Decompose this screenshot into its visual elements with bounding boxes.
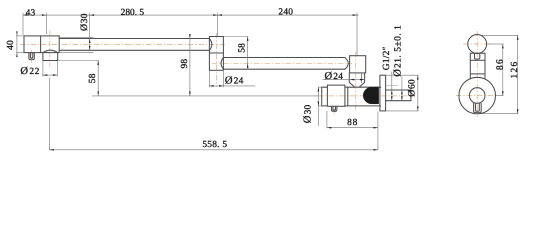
ext line dome bottom (58 top ref) bbox=[57, 60, 99, 62]
front view column joint line bbox=[470, 73, 485, 75]
svg-text:Ø60: Ø60 bbox=[407, 79, 418, 97]
arrow dia30 top bbox=[89, 39, 91, 43]
arrow 58no2 bottom bbox=[247, 63, 249, 67]
dia60 ext bottom bbox=[385, 110, 418, 112]
arrow 558.5 right bbox=[374, 149, 378, 151]
centerline drain nub axis bbox=[333, 108, 335, 116]
arrow 126 bottom bbox=[517, 109, 519, 113]
top dim line (43 / 280.5 / 240) bbox=[23, 14, 359, 16]
arm1 sleeve top edge bbox=[59, 37, 93, 39]
40 ext bottom bbox=[16, 52, 23, 54]
elbow1 mid joint line bbox=[209, 52, 223, 54]
40 dim line (left side) bbox=[16, 31, 23, 58]
arm1 sleeve bottom edge bbox=[59, 52, 93, 54]
88 ext left bbox=[326, 111, 328, 128]
riser neck right bbox=[359, 85, 361, 88]
86 dim line bbox=[502, 44, 504, 96]
svg-text:Ø30: Ø30 bbox=[79, 13, 90, 31]
arrow 40 bottom bbox=[16, 53, 18, 57]
dia60 dim line bbox=[417, 75, 419, 111]
arm1 tube top edge bbox=[59, 38, 209, 40]
arrow 98 bottom bbox=[189, 92, 191, 96]
dia30 no2 dim line bbox=[317, 87, 319, 126]
dia24 no1 ext right bbox=[222, 70, 224, 87]
arrow 86 top bbox=[502, 44, 504, 48]
riser chamfer right bbox=[360, 82, 365, 86]
arrow dia60 top bbox=[417, 75, 419, 79]
arrow dia24no2 right bbox=[360, 79, 364, 81]
arm1 tube bottom edge bbox=[59, 49, 209, 51]
ext line wall pivot bbox=[356, 13, 358, 56]
dia22 dim line bbox=[43, 74, 57, 76]
arrow dia60 bottom bbox=[417, 107, 419, 111]
riser column inner line bbox=[361, 73, 363, 83]
front view pipe circle bbox=[469, 88, 485, 104]
centerline front view top circle axis bbox=[463, 43, 492, 45]
centerline wall pivot axis bbox=[355, 52, 357, 112]
inlet thread bottom edge bbox=[385, 100, 411, 102]
arm1 end cap arc bbox=[209, 39, 211, 51]
svg-text:Ø21. 5±0. 1: Ø21. 5±0. 1 bbox=[392, 25, 403, 77]
126 ext bottom bbox=[481, 113, 518, 115]
arm2 tube top edge bbox=[223, 57, 345, 59]
dia24 no2 dim + shelf line bbox=[323, 79, 365, 81]
arrow dia24no2 left bbox=[350, 79, 354, 81]
centerline front view flange axis bbox=[456, 95, 499, 97]
88 dim line bbox=[327, 127, 378, 129]
arrow 558.5 left bbox=[49, 149, 53, 151]
centerline front view vertical axis bbox=[476, 31, 478, 117]
front view collar slot bbox=[475, 53, 480, 59]
58 no2 dim line bbox=[247, 37, 249, 69]
arrow dia21.5 top bbox=[401, 90, 403, 94]
arrow 58 top bbox=[97, 61, 99, 65]
arrow dia24no1 left bbox=[209, 85, 213, 87]
ext line elbow1 bbox=[217, 13, 219, 37]
arrow 58no2 top bbox=[247, 37, 249, 41]
riser neck left bbox=[353, 85, 355, 88]
dia21.5 dim line bbox=[401, 77, 403, 101]
arrow dia24no1 right bbox=[219, 85, 223, 87]
dia24 no1 dim + shelf line bbox=[209, 85, 255, 87]
escutcheon block bbox=[327, 85, 345, 106]
svg-text:98: 98 bbox=[180, 59, 190, 69]
svg-text:G1/2″: G1/2″ bbox=[382, 46, 392, 70]
inlet pipe top edge right part bbox=[345, 86, 381, 88]
front view pivot dome circle bbox=[468, 35, 487, 54]
svg-text:58: 58 bbox=[238, 43, 248, 53]
svg-text:Ø30: Ø30 bbox=[303, 104, 314, 123]
arrow dia30 bottom bbox=[89, 46, 91, 50]
centerline arm2 axis bbox=[212, 62, 352, 64]
svg-text:280. 5: 280. 5 bbox=[121, 8, 145, 18]
dia60 ext top bbox=[385, 74, 418, 76]
wall flange bbox=[380, 75, 386, 111]
handle knob (filled) bbox=[363, 87, 378, 104]
86 ext bottom bbox=[496, 95, 504, 97]
riser chamfer left bbox=[349, 82, 354, 86]
88+558.5 ext right (wall face) bbox=[377, 112, 379, 151]
wall pivot block rounded head bbox=[350, 56, 366, 73]
ext line + dia30 dim line at x89.7 bbox=[89, 13, 91, 51]
arm2 end cap arc at wall pivot bbox=[345, 58, 348, 70]
arrow G1/2 top bbox=[391, 90, 393, 94]
front view nub inner bbox=[476, 103, 480, 111]
arrow 88 left bbox=[327, 127, 331, 129]
centerline inlet pipe axis bbox=[318, 95, 412, 97]
centerline aerator tab axis bbox=[31, 50, 33, 63]
spout head body bbox=[24, 36, 59, 53]
dia24 no1 ext left bbox=[208, 70, 210, 87]
front view collar bbox=[470, 53, 485, 60]
58 left dim line bbox=[97, 61, 99, 96]
arrow dia22 left bbox=[43, 74, 47, 76]
arrow 280.5 right bbox=[213, 14, 217, 16]
svg-text:40: 40 bbox=[6, 40, 16, 50]
svg-text:Ø24: Ø24 bbox=[225, 75, 244, 86]
spout pivot boss bbox=[43, 53, 58, 61]
dia22 ext right bbox=[56, 61, 58, 77]
arrow dia30no2 bottom bbox=[318, 102, 320, 106]
arrow 40 top bbox=[16, 32, 18, 36]
arrow 88 right bbox=[374, 127, 378, 129]
elbow1 block bbox=[209, 37, 223, 71]
svg-text:Ø22: Ø22 bbox=[20, 66, 40, 77]
G1/2 dim line bbox=[391, 72, 393, 101]
arm2 end cap arc at elbow1 bbox=[221, 58, 223, 70]
arrow 240 right bbox=[353, 14, 357, 16]
svg-text:126: 126 bbox=[510, 61, 520, 79]
svg-text:43: 43 bbox=[26, 8, 36, 18]
svg-text:86: 86 bbox=[495, 58, 505, 70]
arrow dia22 right bbox=[53, 74, 57, 76]
126 dim line bbox=[517, 35, 519, 113]
arrow dia30no2 top bbox=[318, 87, 320, 91]
arrow G1/2 bottom bbox=[391, 96, 393, 100]
inlet pipe top edge left part bbox=[322, 86, 328, 88]
inlet pipe bottom edge right part bbox=[345, 105, 381, 107]
arrow 126 top bbox=[517, 35, 519, 39]
riser column left edge bbox=[348, 73, 350, 83]
arrow 86 bottom bbox=[502, 91, 504, 95]
front view column right edge bbox=[484, 60, 486, 79]
svg-text:58: 58 bbox=[88, 73, 98, 83]
front view column left edge bbox=[469, 60, 471, 79]
inlet pipe left end cap bbox=[321, 87, 323, 106]
spout pivot dome cap bbox=[43, 50, 58, 52]
arrow 43 left bbox=[23, 14, 27, 16]
centerline elbow1 pivot axis bbox=[215, 33, 217, 87]
arrow 43 right bbox=[42, 14, 46, 16]
558.5 dim line bbox=[49, 149, 378, 151]
thread root line bbox=[386, 85, 398, 87]
arrow 280.5 left bbox=[90, 14, 94, 16]
valve body joint line bbox=[347, 87, 349, 106]
centerline arm1 axis bbox=[20, 44, 227, 46]
drain nub inner bbox=[333, 106, 336, 110]
86 ext top bbox=[488, 43, 504, 45]
svg-text:240: 240 bbox=[278, 8, 293, 18]
dia22 ext left bbox=[42, 61, 44, 77]
dia30 no2 ext bottom bbox=[318, 105, 323, 107]
558.5 ext left bbox=[48, 78, 50, 151]
126 ext top bbox=[482, 34, 519, 36]
40 dim line bbox=[16, 31, 18, 58]
40 ext top bbox=[16, 35, 23, 37]
ext line elbow1 top (58 no2 ref) bbox=[223, 36, 248, 38]
inlet axis extension line bbox=[92, 95, 318, 97]
98 dim line bbox=[189, 34, 191, 96]
arm2 tube bottom edge bbox=[223, 68, 345, 70]
dia30 no2 ext top bbox=[318, 86, 323, 88]
inlet thread end cap bbox=[410, 90, 412, 101]
arrow 58 bottom bbox=[97, 92, 99, 96]
svg-text:558. 5: 558. 5 bbox=[202, 140, 227, 150]
riser column right edge bbox=[364, 73, 366, 83]
inlet pipe bottom edge left part bbox=[322, 105, 328, 107]
ext line head left bbox=[22, 13, 24, 35]
drain nub outer bbox=[332, 106, 337, 111]
svg-text:88: 88 bbox=[347, 118, 358, 128]
ext line 43 right bbox=[45, 13, 47, 34]
arrow 98 top bbox=[189, 34, 191, 38]
spout head joint line bbox=[40, 36, 42, 53]
inlet thread top edge bbox=[385, 89, 411, 91]
aerator tab outer bbox=[29, 53, 34, 60]
arrow dia21.5 bottom bbox=[401, 96, 403, 100]
front view nub outer bbox=[474, 103, 482, 113]
aerator tab inner bbox=[30, 53, 32, 59]
front view flange circle bbox=[459, 77, 496, 114]
svg-text:Ø24: Ø24 bbox=[325, 71, 344, 82]
centerline spout outlet axis bbox=[49, 31, 51, 67]
arrow 240 left bbox=[218, 14, 222, 16]
